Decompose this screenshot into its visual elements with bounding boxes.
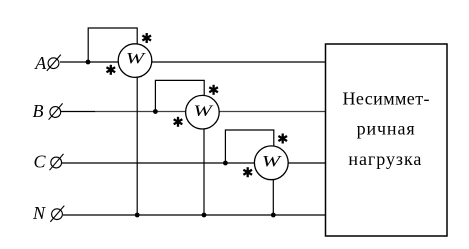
junction node on wire B <box>153 109 158 114</box>
junction node W3 on neutral <box>271 213 276 218</box>
svg-text:N: N <box>32 203 46 223</box>
terminal C <box>50 154 64 170</box>
label C <box>34 152 47 172</box>
svg-text:нагрузка: нагрузка <box>348 149 421 169</box>
wire phase C <box>62 162 326 164</box>
load box (Несимметричная нагрузка) <box>326 44 448 236</box>
svg-text:W: W <box>126 50 147 67</box>
voltage-coil bracket of wattmeter W2 <box>155 80 204 111</box>
svg-text:ричная: ричная <box>357 118 415 138</box>
wire neutral N <box>63 214 326 216</box>
svg-text:W: W <box>193 103 214 120</box>
polarity mark of W1 (voltage coil, top) <box>142 33 151 43</box>
junction node on wire C <box>223 161 228 166</box>
wire phase B (grey segment) <box>95 111 326 113</box>
voltage-coil bracket of wattmeter W1 <box>88 28 137 62</box>
junction node W1 on neutral <box>135 213 140 218</box>
polarity mark of W3 (voltage coil, top) <box>278 134 287 144</box>
label N <box>32 203 46 223</box>
svg-text:A: A <box>34 53 47 73</box>
terminal N <box>50 206 64 222</box>
wire from wattmeter W1 down to neutral <box>136 76 138 215</box>
wire phase A <box>60 61 326 63</box>
svg-text:C: C <box>34 152 47 172</box>
voltage-coil bracket of wattmeter W3 <box>225 130 273 163</box>
label B <box>33 101 44 121</box>
polarity mark of W3 (current coil, left) <box>243 167 252 177</box>
wattmeter W1 <box>118 44 152 78</box>
svg-text:B: B <box>33 101 44 121</box>
polarity mark of W1 (current coil, left) <box>106 65 115 75</box>
terminal B <box>49 103 63 119</box>
svg-text:Несиммет-: Несиммет- <box>343 89 430 109</box>
terminal A <box>47 55 61 71</box>
junction node W2 on neutral <box>202 213 207 218</box>
wattmeter W3 <box>254 146 288 180</box>
label A <box>34 53 47 73</box>
polarity mark of W2 (current coil, left) <box>174 117 183 127</box>
wire phase B (left black segment) <box>61 111 95 113</box>
junction node on wire A <box>86 60 91 65</box>
wire from wattmeter W2 down to neutral <box>203 128 205 215</box>
svg-text:W: W <box>262 153 283 170</box>
polarity mark of W2 (voltage coil, top) <box>209 85 218 95</box>
wire from wattmeter W3 down to neutral <box>272 179 274 216</box>
wattmeter W2 <box>186 95 220 129</box>
